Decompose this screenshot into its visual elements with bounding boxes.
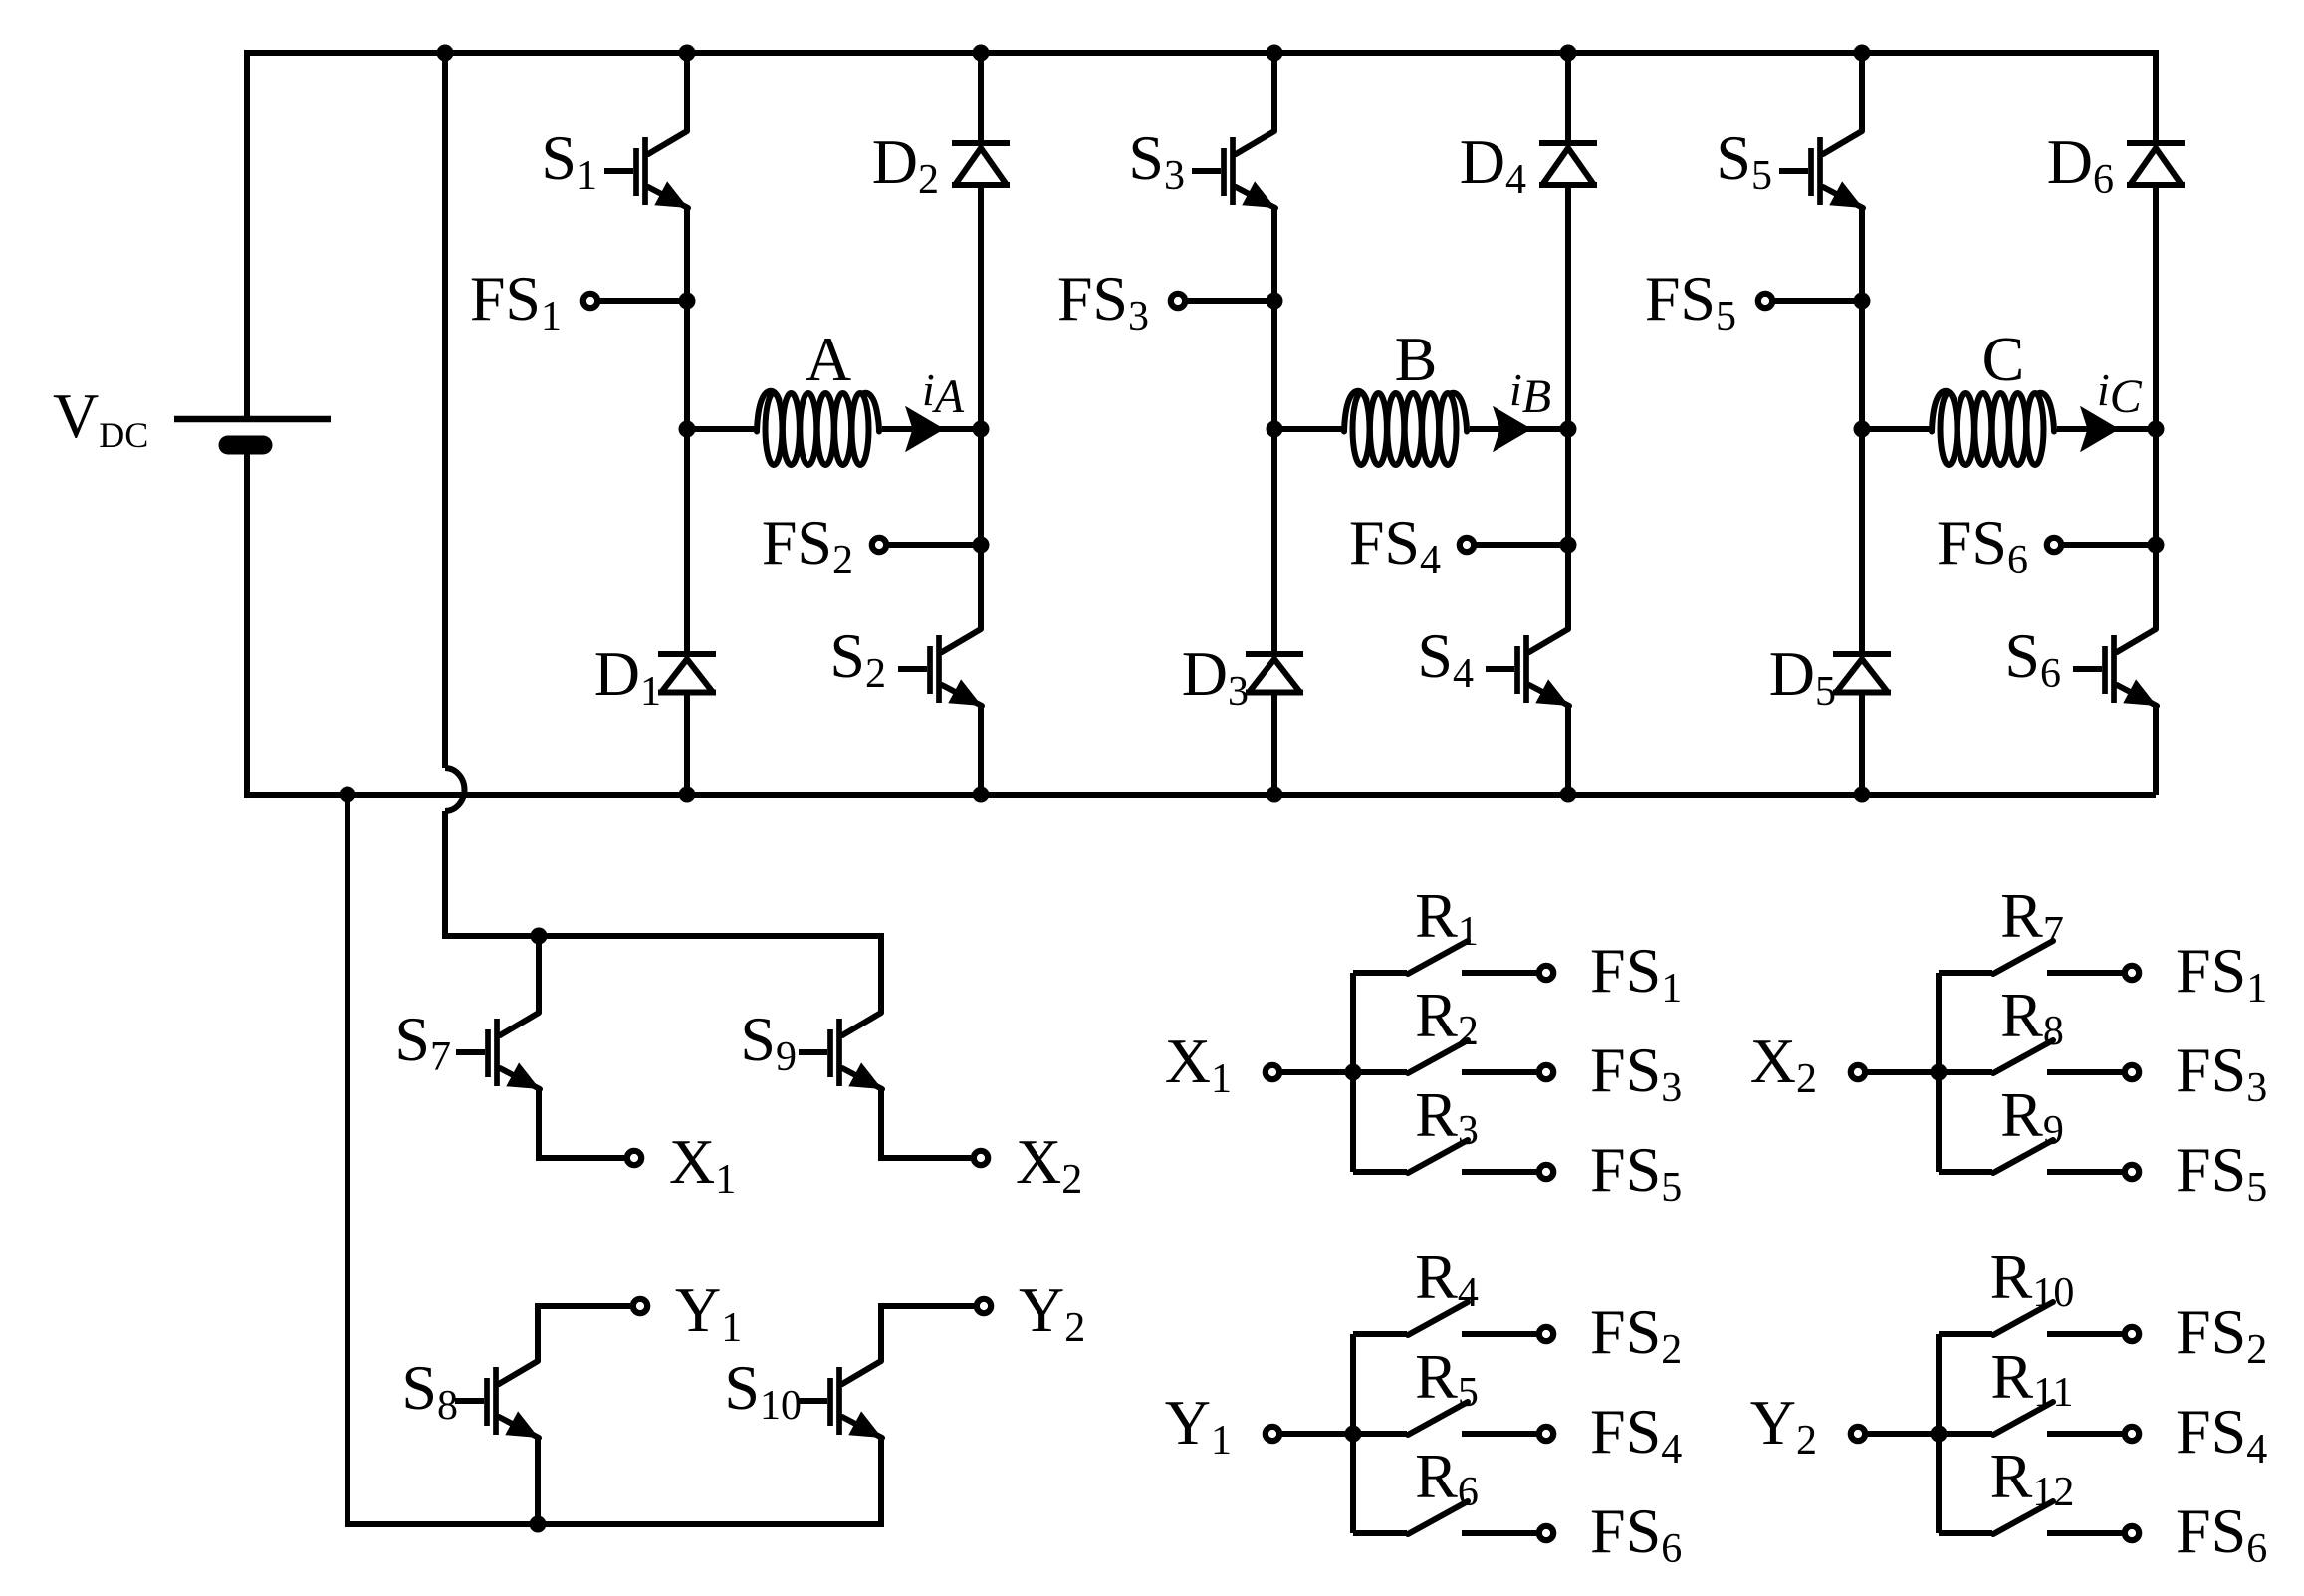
wire left leg phase C (top)	[1859, 53, 1865, 131]
relay R1 branch stub	[1353, 970, 1407, 976]
junction phase A winding left node	[679, 421, 696, 438]
transistor S7 (IGBT)	[456, 1013, 540, 1089]
terminal FS1 of network X2 (circle)	[2125, 966, 2139, 980]
inductor C (phase winding)	[1932, 391, 2054, 465]
junction node FS6	[2148, 537, 2165, 554]
wire contact to FS4	[2047, 1431, 2122, 1437]
terminal FS6 (circle)	[2047, 538, 2061, 552]
relay R11 switch blade	[1993, 1402, 2053, 1435]
relay R3 branch stub	[1353, 1169, 1407, 1175]
svg-text:iB: iB	[1509, 364, 1551, 423]
wire FS3 lead	[1183, 298, 1274, 304]
wire Y1 to S8 collector	[538, 1306, 630, 1361]
wire X1 lead	[1282, 1069, 1353, 1075]
svg-text:A: A	[806, 324, 851, 394]
junction bottom rail / leg D1	[679, 787, 696, 803]
relay R2 switch blade	[1408, 1040, 1468, 1073]
relay R3 switch blade	[1408, 1140, 1468, 1173]
junction Y1 bus	[1345, 1426, 1362, 1443]
junction node FS5	[1854, 293, 1871, 310]
wire right leg phase C (bottom)	[2153, 706, 2159, 795]
current arrow i_C	[2057, 406, 2156, 452]
terminal FS3 of network X2 (circle)	[2125, 1065, 2139, 1079]
wire S9 collector drop	[878, 933, 884, 1013]
junction top rail / leg S3	[1267, 45, 1283, 62]
transistor S1 (IGBT)	[604, 131, 688, 208]
relay R7 switch blade	[1993, 941, 2053, 974]
junction node FS1	[679, 293, 696, 310]
wire top DC rail	[244, 50, 2159, 56]
relay R2 branch stub	[1353, 1069, 1407, 1075]
diode D4	[1539, 143, 1597, 185]
junction top rail / leg D4	[1560, 45, 1577, 62]
wire left leg phase B (middle)	[1271, 208, 1277, 654]
junction S8 emitter / return wire	[530, 1516, 547, 1533]
wire contact to FS6	[1462, 1530, 1536, 1536]
wire contact to FS1	[2047, 970, 2122, 976]
wire right leg phase A (top)	[978, 53, 984, 143]
wire contact to FS6	[2047, 1530, 2122, 1536]
terminal FS5 of network X2 (circle)	[2125, 1165, 2139, 1179]
relay R10 switch blade	[1993, 1302, 2053, 1335]
relay R12 branch stub	[1939, 1530, 1992, 1536]
terminal X1 (circle)	[627, 1151, 641, 1165]
junction top rail / aux branch	[437, 45, 454, 62]
wire right leg phase B (top)	[1565, 53, 1571, 143]
junction phase A winding right node	[973, 421, 990, 438]
junction bottom rail / leg S2	[973, 787, 990, 803]
terminal FS2 of network Y2 (circle)	[2125, 1327, 2139, 1341]
diode D5	[1833, 654, 1891, 693]
relay R4 branch stub	[1353, 1331, 1407, 1337]
wire X2 lead	[1868, 1069, 1939, 1075]
terminal FS2 of network Y1 (circle)	[1539, 1327, 1553, 1341]
wire contact to FS4	[1462, 1431, 1536, 1437]
wire left leg phase C (bottom)	[1859, 693, 1865, 796]
transistor S2 (IGBT)	[898, 629, 982, 706]
wire auxiliary branch from top rail	[442, 53, 448, 768]
junction bottom rail / lower block	[340, 787, 356, 803]
wire left leg phase A (bottom)	[684, 693, 690, 796]
inductor A (phase winding)	[757, 391, 879, 465]
wire FS6 lead	[2059, 542, 2156, 548]
wire hop over bottom rail	[445, 768, 465, 811]
relay R4 switch blade	[1408, 1302, 1468, 1335]
wire winding C entry	[1862, 426, 1932, 432]
wire right leg phase A (bottom)	[978, 706, 984, 795]
terminal Y1 (circle)	[1266, 1427, 1279, 1441]
junction phase C winding right node	[2148, 421, 2165, 438]
wire contact to FS5	[2047, 1169, 2122, 1175]
wire lower return to bottom rail	[347, 795, 881, 1524]
wire FS1 lead	[595, 298, 687, 304]
relay R5 switch blade	[1408, 1402, 1468, 1435]
junction bottom rail / leg S4	[1560, 787, 1577, 803]
terminal FS5 of network X1 (circle)	[1539, 1165, 1553, 1179]
battery VDC positive plate	[174, 416, 331, 423]
relay R8 switch blade	[1993, 1040, 2053, 1073]
terminal FS2 (circle)	[872, 538, 886, 552]
wire left leg phase B (bottom)	[1271, 693, 1277, 796]
wire Y2 to S10 collector	[881, 1306, 974, 1361]
current arrow i_B	[1470, 406, 1568, 452]
terminal FS4 (circle)	[1460, 538, 1474, 552]
transistor S6 (IGBT)	[2073, 629, 2157, 706]
wire contact to FS3	[2047, 1069, 2122, 1075]
relay R6 branch stub	[1353, 1530, 1407, 1536]
transistor S3 (IGBT)	[1192, 131, 1275, 208]
terminal FS1 (circle)	[583, 294, 597, 308]
terminal Y2 (circle)	[977, 1299, 991, 1313]
terminal FS3 (circle)	[1171, 294, 1185, 308]
wire contact to FS3	[1462, 1069, 1536, 1075]
relay R5 branch stub	[1353, 1431, 1407, 1437]
terminal FS1 of network X1 (circle)	[1539, 966, 1553, 980]
wire left leg phase C (middle)	[1859, 208, 1865, 654]
junction top rail / leg S5	[1854, 45, 1871, 62]
terminal FS6 of network Y1 (circle)	[1539, 1526, 1553, 1540]
wire right leg phase B (middle)	[1565, 185, 1571, 629]
wire X1 bus	[1350, 973, 1356, 1172]
wire S10 emitter down	[878, 1438, 884, 1527]
svg-text:C: C	[1982, 324, 2025, 394]
diode D2	[952, 143, 1010, 185]
battery VDC negative plate	[228, 436, 263, 455]
wire S8 emitter down	[535, 1438, 541, 1524]
wire winding A entry	[687, 426, 757, 432]
wire FS4 lead	[1472, 542, 1568, 548]
wire Y2 lead	[1868, 1431, 1939, 1437]
inductor B (phase winding)	[1344, 391, 1467, 465]
terminal X2 (circle)	[1851, 1065, 1865, 1079]
terminal FS6 of network Y2 (circle)	[2125, 1526, 2139, 1540]
relay R7 branch stub	[1939, 970, 1992, 976]
wire FS5 lead	[1770, 298, 1862, 304]
transistor S8 (IGBT)	[455, 1361, 539, 1438]
wire contact to FS2	[2047, 1331, 2122, 1337]
relay R8 branch stub	[1939, 1069, 1992, 1075]
wire left leg phase B (top)	[1271, 53, 1277, 131]
relay R9 branch stub	[1939, 1169, 1992, 1175]
wire winding B entry	[1274, 426, 1344, 432]
junction bottom rail / leg D5	[1854, 787, 1871, 803]
junction top rail / leg D2	[973, 45, 990, 62]
wire auxiliary branch to lower block	[445, 811, 881, 936]
junction collector feed node S7	[531, 928, 548, 945]
junction X1 bus	[1345, 1064, 1362, 1081]
svg-text:iC: iC	[2097, 364, 2143, 423]
junction node FS3	[1267, 293, 1283, 310]
diode D1	[658, 654, 716, 693]
svg-text:iA: iA	[922, 364, 965, 423]
diode D6	[2127, 143, 2185, 185]
wire Y2 bus	[1936, 1334, 1942, 1533]
relay R1 switch blade	[1408, 941, 1468, 974]
terminal FS4 of network Y2 (circle)	[2125, 1427, 2139, 1441]
relay R9 switch blade	[1993, 1140, 2053, 1173]
relay R11 branch stub	[1939, 1431, 1992, 1437]
wire left battery branch upper	[244, 53, 250, 416]
junction node FS4	[1560, 537, 1577, 554]
terminal Y1 (circle)	[633, 1299, 647, 1313]
wire contact to FS2	[1462, 1331, 1536, 1337]
wire bottom DC rail	[244, 792, 2156, 798]
terminal X2 (circle)	[974, 1151, 988, 1165]
terminal FS4 of network Y1 (circle)	[1539, 1427, 1553, 1441]
wire left battery branch lower	[244, 445, 250, 795]
svg-text:B: B	[1395, 324, 1438, 394]
wire right leg phase B (bottom)	[1565, 706, 1571, 795]
wire right leg phase C (middle)	[2153, 185, 2159, 629]
wire right leg phase A (middle)	[978, 185, 984, 629]
transistor S5 (IGBT)	[1779, 131, 1863, 208]
junction top rail / leg S1	[679, 45, 696, 62]
junction phase C winding left node	[1854, 421, 1871, 438]
wire X2 bus	[1936, 973, 1942, 1172]
junction node FS2	[973, 537, 990, 554]
wire FS2 lead	[884, 542, 981, 548]
wire S7 emitter to X1	[539, 1089, 624, 1158]
terminal Y2 (circle)	[1851, 1427, 1865, 1441]
wire Y1 lead	[1282, 1431, 1353, 1437]
terminal FS3 of network X1 (circle)	[1539, 1065, 1553, 1079]
transistor S9 (IGBT)	[799, 1013, 882, 1089]
transistor S10 (IGBT)	[799, 1361, 882, 1438]
wire S7 collector drop	[536, 936, 542, 1013]
terminal X1 (circle)	[1266, 1065, 1279, 1079]
junction phase B winding left node	[1267, 421, 1283, 438]
wire S9 emitter to X2	[881, 1089, 971, 1158]
relay R10 branch stub	[1939, 1331, 1992, 1337]
junction Y2 bus	[1931, 1426, 1948, 1443]
diode D3	[1246, 654, 1303, 693]
wire Y1 bus	[1350, 1334, 1356, 1533]
wire right leg phase C (top)	[2153, 53, 2159, 143]
wire contact to FS1	[1462, 970, 1536, 976]
junction phase B winding right node	[1560, 421, 1577, 438]
relay R12 switch blade	[1993, 1501, 2053, 1534]
wire contact to FS5	[1462, 1169, 1536, 1175]
junction X2 bus	[1931, 1064, 1948, 1081]
junction bottom rail / leg D3	[1267, 787, 1283, 803]
terminal FS5 (circle)	[1758, 294, 1772, 308]
current arrow i_A	[882, 406, 981, 452]
wire left leg phase A (middle)	[684, 208, 690, 654]
relay R6 switch blade	[1408, 1501, 1468, 1534]
transistor S4 (IGBT)	[1486, 629, 1569, 706]
wire left leg phase A (top)	[684, 53, 690, 131]
